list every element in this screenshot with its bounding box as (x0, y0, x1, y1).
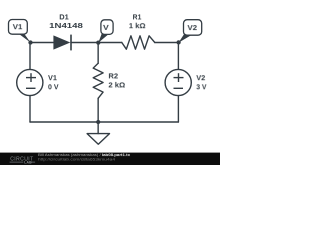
wire left branch lower: V1 source bottom to bottom rail (29, 96, 31, 122)
resistor R2 zigzag (93, 63, 103, 98)
diode D1 triangle (53, 35, 70, 49)
ground stub (97, 122, 99, 134)
svg-text:V2: V2 (196, 74, 205, 82)
svg-text:1N4148: 1N4148 (49, 21, 83, 29)
svg-text:0 V: 0 V (48, 84, 59, 91)
wire mid branch lower: R2 bottom to bottom rail (97, 98, 99, 122)
wire right branch upper: node V2 down to V2 source top (177, 43, 179, 70)
node label V2 flag tail (179, 34, 192, 43)
footer CircuitLab logo lines (10, 161, 24, 163)
svg-text:3 V: 3 V (196, 84, 207, 91)
svg-text:V: V (103, 23, 109, 31)
junction ground node dot (96, 120, 100, 124)
junction node V2 dot (176, 40, 180, 44)
svg-text:1 kΩ: 1 kΩ (129, 22, 146, 31)
node label V1 box (9, 20, 28, 35)
resistor R1 zigzag (122, 36, 155, 49)
wire diode cathode to mid node (71, 42, 122, 44)
wire right branch lower: V2 source bottom to bottom rail (177, 96, 179, 122)
V2 source plus sign (174, 73, 184, 88)
V1 source minus sign (26, 87, 36, 89)
voltage source V2 circle (165, 69, 191, 95)
junction node V1 dot (28, 40, 32, 44)
wire left branch upper: node V1 down to V1 source top (29, 43, 31, 70)
wire bottom rail (30, 121, 178, 123)
wire top rail left: node V1 to diode anode (30, 42, 53, 44)
voltage source V1 circle (17, 69, 43, 95)
wire R1 right lead to node V2 (155, 42, 178, 44)
svg-text:Bill Ashmanskas (ashmanskas) /: Bill Ashmanskas (ashmanskas) / lab08.par… (38, 153, 130, 157)
svg-text:http://circuitlab.com/c8ta653k: http://circuitlab.com/c8ta653kmu4a4 (38, 158, 115, 162)
svg-text:V2: V2 (187, 23, 197, 32)
node label V1 flag tail (18, 33, 31, 43)
junction mid node dot (96, 40, 100, 44)
node label V2 box (184, 20, 202, 36)
wire mid branch upper: mid node down to R2 top (97, 43, 99, 64)
V2 source minus sign (174, 87, 184, 89)
svg-text:D1: D1 (59, 13, 68, 22)
svg-text:2 kΩ: 2 kΩ (108, 81, 125, 90)
footer bar (0, 153, 220, 165)
diode D1 cathode bar (70, 35, 72, 51)
svg-text:R1: R1 (133, 14, 142, 21)
svg-text:V1: V1 (13, 22, 23, 31)
V1 source plus sign (26, 73, 36, 88)
node label V box (101, 20, 113, 35)
svg-text:V1: V1 (48, 74, 57, 82)
svg-text:R2: R2 (108, 72, 118, 81)
ground triangle (87, 134, 109, 145)
svg-text:LAB: LAB (24, 161, 32, 165)
node label V flag tail (98, 34, 108, 43)
